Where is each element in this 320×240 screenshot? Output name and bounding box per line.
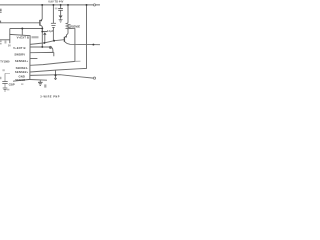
svg-text:SENSE2+: SENSE2+ [15, 70, 29, 74]
wire left pin into box [0, 39, 10, 41]
junction collector / box-top wire [41, 28, 43, 30]
svg-text:SWDRV: SWDRV [14, 52, 25, 56]
junction base line / C1 [53, 40, 55, 42]
left edge battery ticks [0, 9, 2, 12]
IC box U1 (left edge partial, as in scan) [10, 34, 30, 81]
wire resistor bottom to riser corner [68, 27, 75, 29]
text fragment near CBP ground [7, 89, 10, 91]
junction rail / C1 [52, 4, 54, 6]
wire pin SWDRV [30, 52, 54, 56]
wire ground tap [39, 80, 41, 82]
wire collector tee to box top [10, 29, 43, 35]
blob at P1 bend [49, 46, 51, 48]
svg-text:5V: 5V [8, 46, 11, 48]
svg-text:3-WIRE PNP: 3-WIRE PNP [40, 95, 60, 98]
wire Q1 collector [41, 27, 43, 47]
transistor Q1 [40, 19, 42, 26]
node 3-wire terminal circle [93, 77, 95, 79]
junction collector / pin P1 [41, 46, 43, 48]
wire L4 to L5 tie with ground tail [55, 70, 57, 78]
wire SENSE- line to riser [30, 28, 75, 65]
left edge nub [0, 21, 1, 23]
svg-text:TY1080: TY1080 [0, 59, 10, 63]
svg-text:0.1µF: 0.1µF [47, 30, 54, 33]
junction rail / Q1 emitter [41, 4, 43, 6]
wire RSENSE bottom lead [67, 29, 69, 34]
wire box corner sense line [30, 79, 47, 82]
ground below diode [59, 20, 63, 22]
junction base line / clamp diode [43, 42, 45, 44]
svg-text:CBP: CBP [9, 82, 15, 86]
node VIN terminal circle [93, 4, 95, 6]
wire Q1 base line [0, 22, 40, 24]
wire Q2 base line [30, 40, 64, 45]
junction output line [92, 44, 94, 46]
node VIN top rail [0, 4, 100, 6]
svg-text:RSENSE: RSENSE [70, 25, 80, 28]
diode D1 to ground [58, 9, 63, 19]
wire Q1 emitter drop [41, 5, 43, 19]
capacitor CBP column [5, 73, 10, 87]
junction collector / clamp diode [41, 31, 43, 33]
wire RSENSE top drop [67, 5, 69, 23]
wire cap column drop [52, 5, 54, 41]
pin number specks below box [21, 83, 23, 85]
capacitor CBP plates [2, 82, 7, 84]
smudge near cap top [55, 8, 58, 10]
junction rail / RSENSE [67, 4, 69, 6]
wire GND pin long line [30, 75, 93, 78]
junction box-top wire drop [21, 28, 23, 30]
wire pin stub [30, 58, 37, 60]
junction rail / sense riser [86, 4, 88, 6]
ground below CBP [3, 88, 8, 91]
smudge right of box top [32, 36, 39, 38]
circuit schematic, scanned datasheet application circuit [0, 0, 100, 100]
junction dot on GND line [54, 74, 56, 76]
wire diode column drop [60, 5, 62, 20]
resistor RSENSE [66, 23, 70, 29]
wire pin P1 with s-bend [30, 47, 53, 52]
transistor Q2 [64, 34, 68, 44]
text fragments at left edge [0, 40, 6, 79]
wire Q2 collector line to right edge [67, 43, 100, 44]
svg-text:SENSE1+: SENSE1+ [15, 59, 29, 63]
junction rail / D1 [60, 4, 62, 6]
capacitor C1 plates [51, 23, 56, 27]
wire faint stub right of riser corner [75, 60, 81, 62]
ground symbol under sense line [38, 82, 43, 85]
svg-text:V+EXT B: V+EXT B [13, 46, 25, 50]
svg-text:V+EXT B: V+EXT B [17, 36, 29, 40]
clamp diode D2 at Q1 collector [42, 32, 47, 35]
svg-text:0.9V TO 44V: 0.9V TO 44V [48, 0, 63, 4]
wire SENSE+ line to rail riser [30, 5, 86, 72]
svg-text:SENSE: SENSE [15, 78, 25, 82]
wire clamp diode lead [44, 35, 46, 43]
ground ticks under L4-L5 tie [54, 78, 57, 79]
